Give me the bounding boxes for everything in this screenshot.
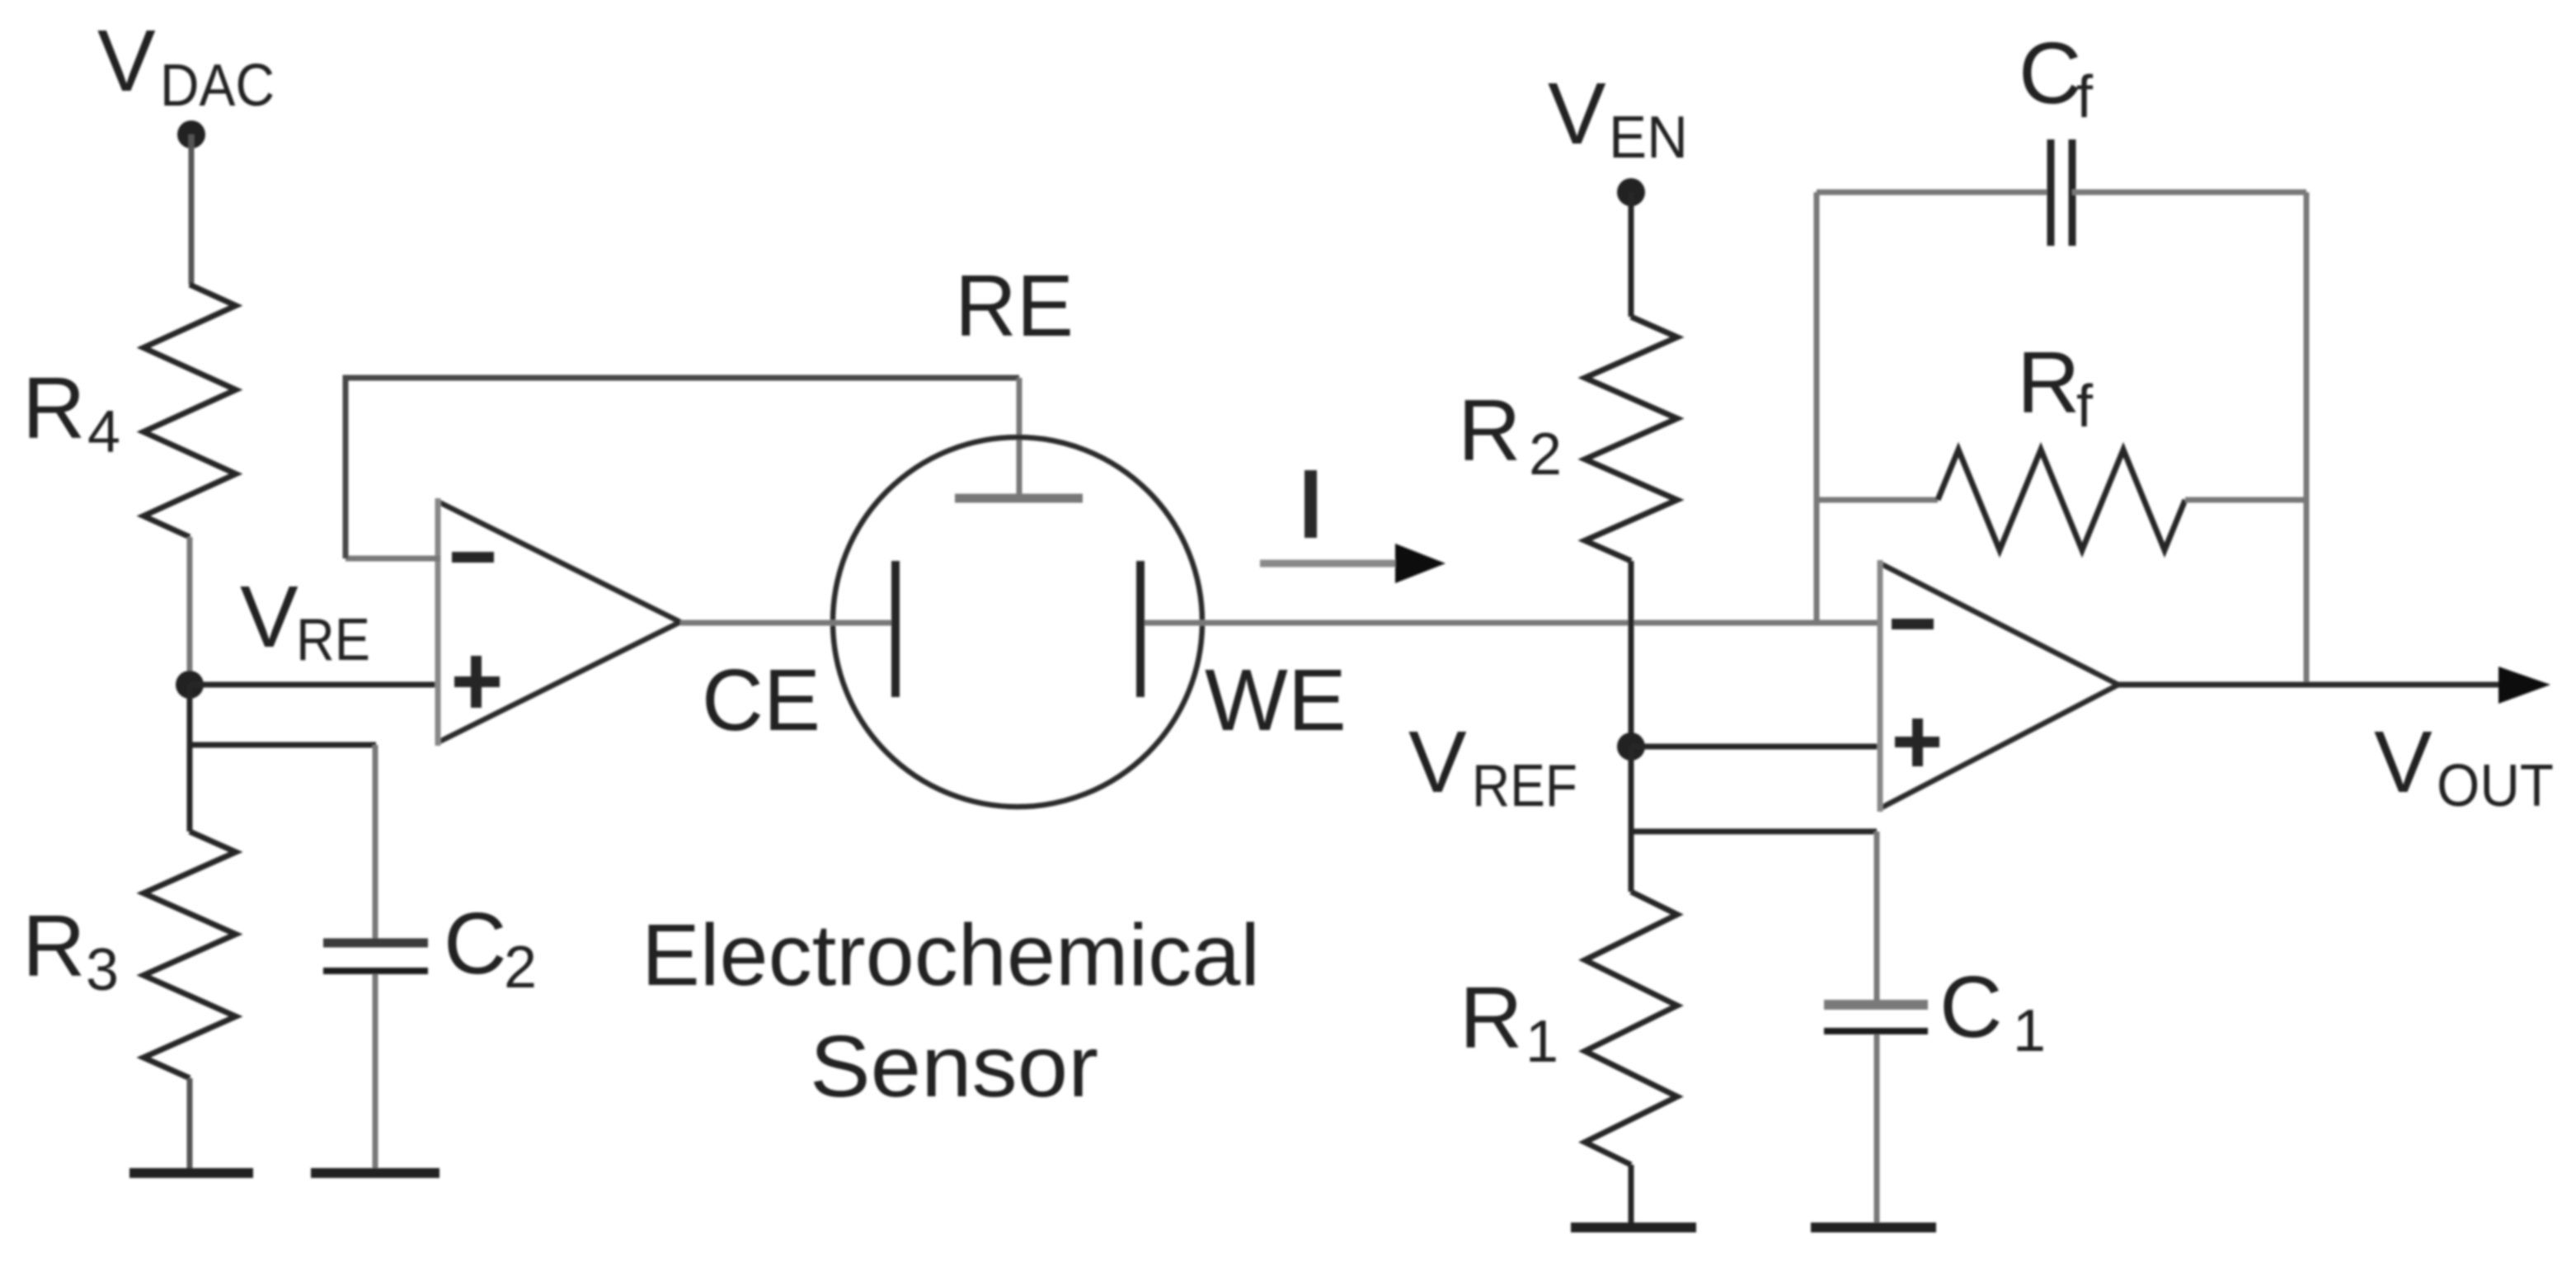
label R3 bbox=[22, 897, 119, 1003]
resistor R4 bbox=[143, 285, 236, 537]
label Rf bbox=[2017, 334, 2094, 440]
op-amp U2 bbox=[1880, 560, 2118, 812]
capacitor C1 bbox=[1824, 832, 1928, 1226]
resistor Rf bbox=[1938, 450, 2185, 550]
electrochemical sensor cell bbox=[833, 437, 1202, 807]
wire U2 output bbox=[2118, 682, 2500, 688]
svg-text:CE: CE bbox=[702, 652, 820, 749]
wire Rf left lead bbox=[1817, 497, 1938, 503]
svg-text:1: 1 bbox=[1525, 1009, 1558, 1075]
electrode RE plate bbox=[955, 494, 1083, 503]
svg-text:Electrochemical: Electrochemical bbox=[642, 907, 1260, 1004]
svg-text:R: R bbox=[1460, 969, 1523, 1067]
electrode WE plate bbox=[1136, 561, 1145, 697]
svg-text:f: f bbox=[2076, 374, 2094, 440]
wire U1 output to CE / main wire to U2 inverting input bbox=[680, 620, 895, 626]
wire R2 to VREF node bbox=[1629, 561, 1634, 747]
svg-text:C: C bbox=[2019, 25, 2082, 122]
feedback network right vertical wire bbox=[2304, 192, 2310, 685]
svg-text:3: 3 bbox=[86, 937, 119, 1003]
ground under R3 bbox=[129, 1168, 253, 1178]
op-amp U1 bbox=[438, 498, 680, 746]
svg-text:R: R bbox=[1458, 382, 1521, 479]
svg-text:1: 1 bbox=[2013, 998, 2046, 1064]
resistor R3 bbox=[143, 832, 236, 1078]
svg-text:C: C bbox=[1939, 959, 2003, 1056]
wire VRE to U1 non-inverting input bbox=[190, 682, 440, 688]
wire R3 to ground bbox=[187, 1078, 193, 1171]
capacitor C2 bbox=[323, 745, 428, 1171]
svg-text:OUT: OUT bbox=[2437, 753, 2554, 819]
wire VEN to R2 bbox=[1629, 192, 1634, 317]
svg-text:2: 2 bbox=[504, 935, 537, 1001]
ground under R1 bbox=[1571, 1223, 1696, 1232]
net label VREF bbox=[1408, 714, 1577, 819]
wire U1 inverting input stub bbox=[346, 556, 440, 562]
node VREF junction bbox=[1617, 733, 1645, 761]
net label VRE bbox=[240, 568, 370, 673]
svg-text:R: R bbox=[22, 360, 86, 457]
wire VRE branch to C2 bbox=[187, 742, 376, 748]
wire VREF branch to C1 bbox=[1629, 829, 1877, 835]
label R1 bbox=[1460, 969, 1558, 1075]
svg-text:V: V bbox=[1548, 65, 1606, 163]
label I current bbox=[1304, 470, 1317, 538]
svg-text:REF: REF bbox=[1472, 753, 1577, 819]
svg-text:V: V bbox=[2374, 714, 2433, 811]
svg-text:V: V bbox=[97, 12, 156, 110]
node VDAC bbox=[177, 120, 205, 148]
electrode CE plate bbox=[891, 561, 900, 697]
label R4 bbox=[22, 360, 120, 465]
wire Rf right lead bbox=[2185, 497, 2306, 503]
svg-text:RE: RE bbox=[296, 607, 370, 673]
current arrow I head bbox=[1395, 544, 1445, 583]
feedback network left vertical wire bbox=[1814, 192, 1820, 623]
svg-text:V: V bbox=[1408, 714, 1467, 811]
net label VEN bbox=[1548, 65, 1688, 171]
node VRE junction bbox=[176, 671, 204, 699]
wire VRE node down to R3 bbox=[187, 685, 193, 832]
label Cf bbox=[2019, 25, 2094, 130]
resistor R2 bbox=[1585, 317, 1677, 561]
svg-text:R: R bbox=[2017, 334, 2080, 431]
svg-text:WE: WE bbox=[1205, 652, 1347, 749]
net label VDAC bbox=[97, 12, 275, 119]
current arrow I shaft bbox=[1260, 560, 1397, 568]
resistor R1 bbox=[1585, 892, 1677, 1165]
wire VREF to U2 non-inverting input bbox=[1631, 744, 1883, 750]
ground under C2 bbox=[311, 1168, 440, 1178]
svg-text:C: C bbox=[444, 895, 507, 992]
svg-text:V: V bbox=[240, 568, 298, 666]
svg-text:f: f bbox=[2076, 64, 2094, 130]
label C2 bbox=[444, 895, 537, 1001]
wire RE drop into cell bbox=[1017, 378, 1022, 495]
net label VOUT bbox=[2374, 714, 2554, 819]
label C1 bbox=[1939, 959, 2046, 1064]
wire VDAC to R4 bbox=[189, 134, 195, 285]
wire WE to U2 inverting input bbox=[1140, 620, 1880, 626]
feedback network top wire left of Cf bbox=[1817, 190, 2051, 196]
ground under C1 bbox=[1811, 1223, 1936, 1232]
svg-text:DAC: DAC bbox=[160, 53, 275, 119]
feedback network top wire right of Cf bbox=[2072, 190, 2306, 196]
svg-text:R: R bbox=[22, 897, 86, 995]
svg-text:2: 2 bbox=[1529, 422, 1562, 488]
wire R1 to ground bbox=[1629, 1165, 1634, 1226]
svg-text:RE: RE bbox=[955, 257, 1074, 355]
svg-text:EN: EN bbox=[1609, 105, 1688, 171]
wire VREF node down to R1 bbox=[1629, 747, 1634, 892]
node VEN bbox=[1617, 178, 1645, 206]
wire U1 feedback loop to RE bbox=[346, 378, 1019, 558]
capacitor Cf bbox=[2051, 139, 2072, 246]
wire R4 to VRE node bbox=[187, 537, 193, 685]
output arrowhead bbox=[2498, 667, 2550, 704]
label Electrochemical Sensor bbox=[642, 907, 1260, 1115]
svg-text:4: 4 bbox=[87, 399, 120, 465]
label R2 bbox=[1458, 382, 1562, 488]
svg-text:Sensor: Sensor bbox=[810, 1018, 1098, 1115]
